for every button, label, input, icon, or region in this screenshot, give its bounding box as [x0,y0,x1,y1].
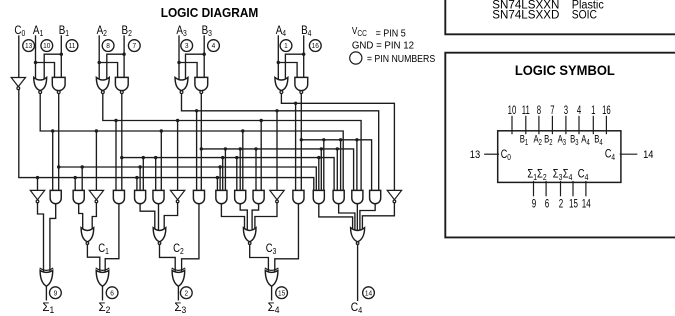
XOR gate S2 [96,268,109,270]
wire NOR3 output to net E3 [182,93,379,191]
pin 11 circle (B1) [66,40,78,52]
svg-text:2: 2 [184,289,188,298]
junction B2 [122,53,125,56]
svg-text:VCC: VCC [352,25,367,38]
wire node C2 to XOR S3 [160,244,176,271]
junction net E1 [95,129,98,132]
AND gate U10 (bit3 half-sum) [193,190,204,203]
pin 10 circle (A1) [41,40,53,52]
wire net D3 branch [239,149,241,192]
junction A3 [177,61,180,64]
wire U16 out to C4 NOR [319,204,353,230]
svg-text:16: 16 [312,42,319,51]
wire A2 input [98,36,100,80]
svg-text:A4: A4 [276,24,286,38]
wire node C3 to XOR S4 [250,244,269,271]
wire net D3 branch [336,149,338,192]
pin 10 stub (symbol top) [511,116,513,133]
wire S3 output [177,286,179,300]
svg-text:13: 13 [470,150,481,162]
wire S2 output [102,286,104,300]
inverter U1 (C0 input inverter) [11,78,25,87]
svg-text:B2: B2 [122,24,132,38]
AND gate U6 (bit2 half-sum) [113,190,124,203]
svg-text:15: 15 [278,289,285,298]
wire U20 out to C4 NOR [362,203,394,230]
wire net E2 branch [260,121,262,192]
wire A1 to NAND gate [36,63,55,78]
wire B4 input [303,36,305,77]
svg-text:7: 7 [132,42,136,51]
wire B3 input [203,36,205,77]
pin 4 stub (symbol top) [578,116,580,133]
wire net E1 branch [160,131,162,192]
svg-text:11: 11 [522,104,530,117]
junction net D2 [235,156,238,159]
NOR gate bit 4 [275,77,288,90]
svg-text:B4: B4 [301,24,311,38]
XOR gate S3 [172,268,185,270]
svg-text:= PIN NUMBERS: = PIN NUMBERS [367,53,435,65]
junction net D2 [142,156,145,159]
logic symbol body [498,131,621,183]
pin 16 circle (B4) [309,40,321,52]
wire U12 out to C3 NOR [240,204,247,230]
junction net D4 at NAND4 output [300,138,303,141]
wire NOR2 output to net E2 [103,93,361,191]
inverter U9 (C2 term) [170,190,184,199]
junction B3 [203,53,206,56]
svg-text:A2: A2 [97,24,107,38]
junction net E1 [241,129,244,132]
wire U19 out to C4 NOR [360,204,375,230]
wire net E2 branch [177,121,179,192]
svg-text:C1: C1 [98,242,109,256]
svg-text:1: 1 [284,42,288,51]
wire A4 to NAND gate [278,63,297,78]
wire NAND4 output to net D4 [300,93,302,191]
NOR gate bit 1 [34,77,47,90]
wire net C0B branch [74,178,76,192]
pin 2 circle (S3) [180,287,192,299]
wire A3 input [178,36,180,80]
junction net D2 [154,156,157,159]
pin 3 stub (symbol top) [565,116,567,133]
pin 16 stub (symbol top) [605,116,607,133]
XOR gate S4 [265,268,278,270]
wire U14 out to C3 NOR [255,203,277,230]
junction net D1 [218,165,221,168]
XOR gate S1 [40,268,53,270]
pin 2 stub (symbol bottom) [560,182,562,196]
AND gate U3 (bit1 half-sum) [50,190,61,203]
AND gate U11 (C3 term) [216,190,227,203]
svg-text:4: 4 [577,104,582,117]
pin 15 stub (symbol bottom) [572,182,574,196]
pin 8 stub (symbol top) [538,116,540,133]
svg-text:A1: A1 [33,24,43,38]
junction net C0B [135,176,138,179]
wire B2 to NOR gate [107,54,124,81]
ordering info box [445,0,675,34]
wire net E1 branch [95,131,97,192]
svg-text:LOGIC DIAGRAM: LOGIC DIAGRAM [161,6,259,21]
pin 7 circle (B2) [128,40,140,52]
inverter U20 (C4 term) [387,190,401,199]
junction net E1 [51,129,54,132]
inverter U14 (C3 term) [270,190,284,199]
wire net E1 branch [242,131,244,192]
svg-text:14: 14 [643,150,654,162]
junction net D1 [138,165,141,168]
svg-text:7: 7 [550,104,555,117]
pin 14 stub (symbol bottom) [585,182,587,196]
junction B1 [60,53,63,56]
svg-text:C0: C0 [14,24,25,38]
junction net D2 [317,156,320,159]
wire U4 out to C1 NOR [79,204,83,230]
wire S1 output [45,286,47,300]
svg-text:SOIC: SOIC [572,9,597,22]
wire net E2 branch [115,121,117,192]
svg-text:14: 14 [365,289,372,298]
wire B4 to NOR gate [285,54,303,81]
svg-text:Σ1: Σ1 [42,301,54,315]
wire net E4 branch [295,103,297,192]
pin 9 circle (S1) [50,287,62,299]
svg-text:9: 9 [532,198,537,211]
junction net C0B [36,176,39,179]
wire net D2 branch [155,158,157,192]
svg-text:Σ4: Σ4 [268,301,280,315]
wire B1 input [60,36,62,77]
junction A4 [277,61,280,64]
junction net E2 [114,119,117,122]
wire node C1 to XOR S2 [87,244,99,271]
svg-text:8: 8 [537,104,542,117]
junction net E3 [195,109,198,112]
svg-text:6: 6 [110,289,114,298]
svg-text:10: 10 [43,42,50,51]
wire U5 out to C1 NOR [92,203,96,230]
wire net D4 branch [356,140,358,192]
junction net C0B [74,176,77,179]
junction net D3 [320,147,323,150]
wire net D2 horizontal [122,158,334,192]
wire NAND3 output to net D3 [200,93,202,191]
junction net D3 at NAND3 output [200,147,203,150]
NAND gate bit 2 [115,77,128,90]
pin 14 circle (C4) [363,287,375,299]
svg-text:2: 2 [559,198,564,211]
NOR gate C2 [153,228,166,242]
wire A2 to NAND gate [99,63,117,78]
pin 14 stub (symbol C4) [620,153,636,155]
wire NAND2 output to net D2 [121,93,123,191]
wire U9 out to C2 NOR [164,203,177,230]
wire C0 input [18,36,20,77]
junction net E3 [275,109,278,112]
AND gate U7 (C2 term) [135,190,146,203]
svg-text:11: 11 [69,42,76,51]
wire net E1 branch [52,131,54,192]
wire A4 input [277,36,279,80]
wire B1 to NOR gate [44,54,61,81]
svg-text:14: 14 [582,198,591,211]
wire NAND1 output to net D1 [58,93,60,191]
wire NOR4 output to net E4 [281,93,394,191]
pin 8 circle (A2) [102,40,114,52]
wire net C0B branch [136,178,138,192]
wire net C0B branch [216,178,218,192]
svg-text:9: 9 [54,289,58,298]
junction net C0B [216,176,219,179]
svg-text:B3: B3 [202,24,212,38]
NOR gate C3 [243,228,256,242]
wire S4 output [271,286,273,300]
NAND gate bit 4 [295,77,308,90]
NOR gate C4 [351,228,365,242]
wire U10 out to XOR S3 [182,204,199,271]
wire node C4 output [357,244,359,300]
wire net D2 branch [318,158,320,192]
junction B4 [302,53,305,56]
svg-text:15: 15 [569,198,578,211]
pin 15 circle (S4) [276,287,288,299]
svg-text:6: 6 [545,198,550,211]
junction net D1 at NAND1 output [57,165,60,168]
wire net E3 branch [196,111,198,192]
wire net D3 branch [255,149,257,192]
junction net E1 [160,129,163,132]
pin 3 circle (A3) [181,40,193,52]
junction net D3 [239,147,242,150]
wire U8 out to C2 NOR [158,204,160,230]
pin 13 stub (symbol C0) [485,153,499,155]
wire net D1 horizontal [59,167,317,192]
wire U15 out to XOR S4 [275,204,299,271]
wire U6 out to XOR S2 [105,204,119,271]
AND gate U17 (C4 term) [333,190,344,203]
svg-text:LOGIC SYMBOL: LOGIC SYMBOL [515,63,615,78]
AND gate U13 (C3 term) [253,190,264,203]
junction net D3 [336,147,339,150]
NOR gate bit 3 [175,77,188,90]
junction net D2 [221,156,224,159]
wire net D1 branch [81,167,83,192]
junction net E2 [260,119,263,122]
wire B3 to NOR gate [186,54,205,81]
svg-text:4: 4 [212,42,216,51]
wire U2 out to XOR S1 [38,203,44,271]
wire net D3 horizontal [201,149,353,192]
svg-text:C3: C3 [266,242,277,256]
wire net D4 horizontal [301,140,371,192]
pin 11 stub (symbol top) [525,116,527,133]
wire net D4 branch [323,140,325,192]
svg-text:13: 13 [25,42,32,51]
junction net D2 at NAND2 output [120,156,123,159]
wire net D3 branch [224,149,226,192]
wire U7 out to C2 NOR [140,204,155,230]
junction net D3 [254,147,257,150]
svg-text:Σ2: Σ2 [99,301,111,315]
svg-text:3: 3 [185,42,189,51]
junction net D4 [355,138,358,141]
junction net D4 [322,138,325,141]
pin 1 circle (A4) [280,40,292,52]
wire B2 input [123,36,125,77]
svg-text:Σ3: Σ3 [174,301,186,315]
inverter U5 (C1 term) [89,190,103,199]
wire U11 out to C3 NOR [221,204,244,230]
NOR gate C1 [81,228,94,242]
AND gate U16 (C4 term) [313,190,324,203]
junction net D1 [81,165,84,168]
wire net D1 branch [139,167,141,192]
wire net D2 branch [236,158,238,192]
svg-text:A3: A3 [176,24,186,38]
wire net E3 branch [276,111,278,192]
svg-text:C4: C4 [351,301,363,315]
svg-text:1: 1 [591,104,596,117]
wire U17 out to C4 NOR [339,204,355,230]
NOR gate bit 2 [96,77,109,90]
junction net D4 [339,138,342,141]
AND gate U8 (C2 term) [153,190,164,203]
svg-text:C2: C2 [173,242,184,256]
NAND gate bit 3 [195,77,208,90]
AND gate U4 (C1 term) [73,190,84,203]
junction A1 [34,61,37,64]
junction net D3 [224,147,227,150]
wire U3 out to XOR S1 [50,204,56,271]
wire A1 input [35,36,37,80]
svg-text:10: 10 [508,104,517,117]
wire net D2 branch [142,158,144,192]
junction net E4 [294,102,297,105]
wire U18 out to C4 NOR [356,204,358,230]
pin 7 stub (symbol top) [551,116,553,133]
junction net E2 [176,119,179,122]
junction A2 [98,61,101,64]
AND gate U12 (C3 term) [235,190,246,203]
AND gate U15 (bit4 half-sum) [293,190,304,203]
wire net D4 branch [340,140,342,192]
AND gate U18 (C4 term) [352,190,363,203]
wire net D3 branch [320,149,322,192]
wire node C0B (inverted C0) [19,90,314,192]
AND gate U19 (C4 term) [370,190,381,203]
svg-text:SN74LSXXD: SN74LSXXD [492,9,559,22]
inverter U2 (C0 restore) [30,190,44,199]
wire net D1 branch [219,167,221,192]
wire net C0B branch [37,178,39,192]
wire NOR1 output to net E1 [40,93,343,191]
wire U13 out to C3 NOR [252,204,259,230]
pin 6 stub (symbol bottom) [545,182,547,196]
svg-text:16: 16 [602,104,611,117]
pin 9 stub (symbol bottom) [533,182,535,196]
svg-text:= PIN 5: = PIN 5 [376,28,406,40]
svg-text:8: 8 [106,42,110,51]
wire A3 to NAND gate [179,63,197,78]
pin 4 circle (B3) [208,40,220,52]
pin 1 stub (symbol top) [592,116,594,133]
svg-text:B1: B1 [59,24,69,38]
logic symbol box [445,53,675,238]
svg-text:GND = PIN 12: GND = PIN 12 [352,40,415,51]
wire net D2 branch [222,158,224,192]
pin 13 circle (C0) [23,40,35,52]
pin 6 circle (S2) [106,287,118,299]
legend circle (pin numbers) [350,52,362,64]
NAND gate bit 1 [52,77,65,90]
svg-text:3: 3 [564,104,569,117]
